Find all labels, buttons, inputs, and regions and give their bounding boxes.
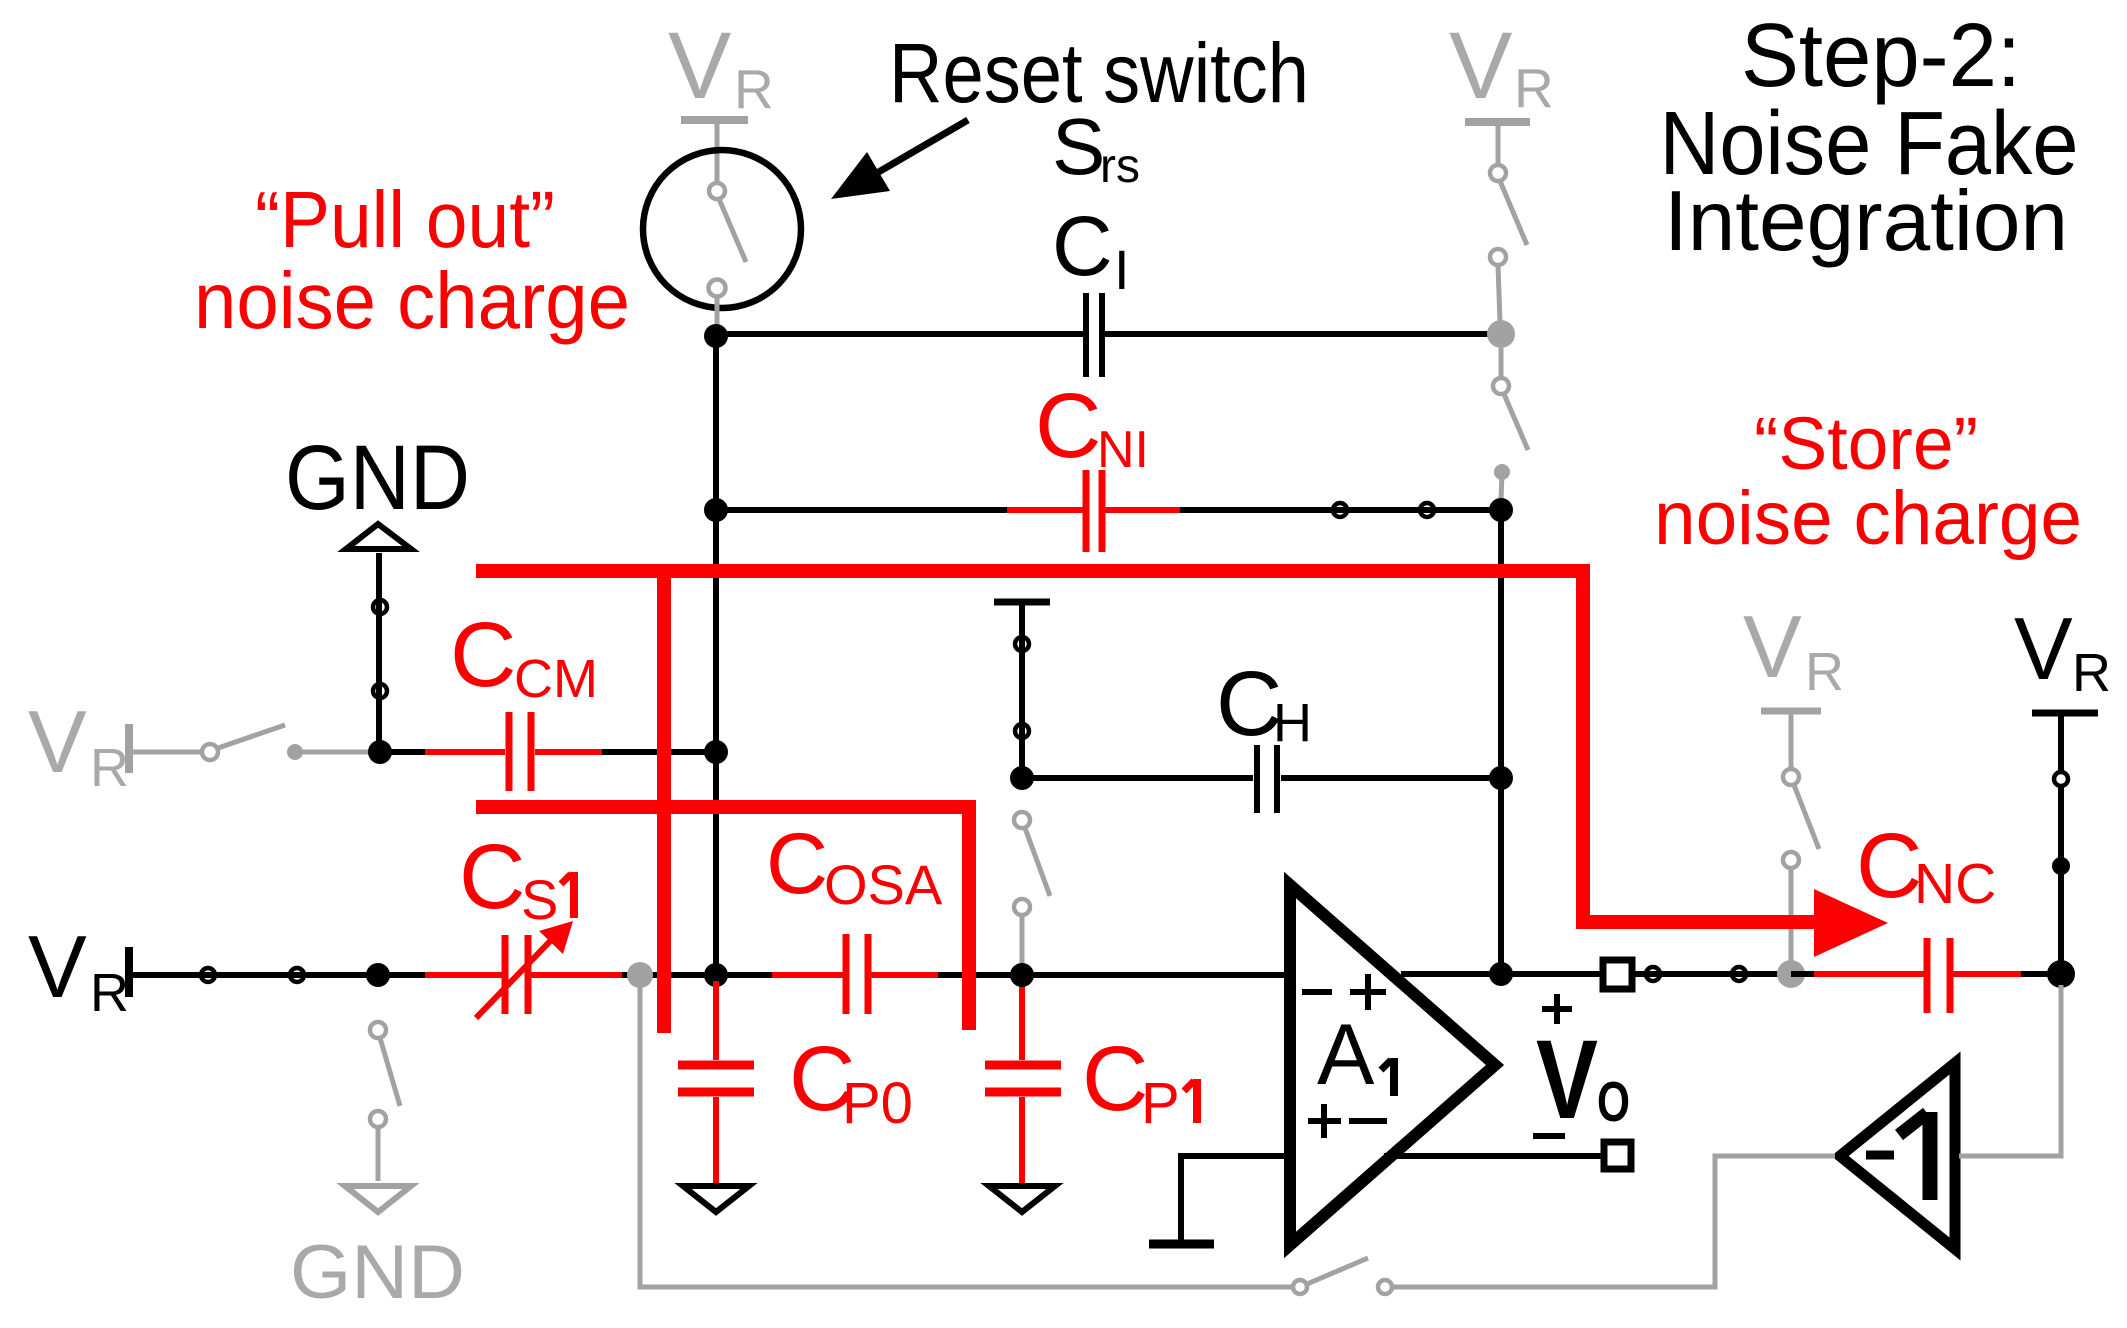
node gray dot store node (1777, 960, 1805, 988)
svg-text:I: I (1114, 238, 1130, 301)
svg-text:S: S (521, 868, 558, 931)
svg-text:R: R (90, 963, 129, 1023)
wire gray feedback path (640, 975, 1835, 1294)
svg-text:V: V (1449, 13, 1512, 119)
svg-text:R: R (734, 58, 774, 120)
annotation arrow to reset switch (831, 120, 968, 199)
svg-text:V: V (28, 692, 87, 791)
ground GND (gray) bottom left (290, 1186, 465, 1315)
node junction dot right node (2047, 960, 2075, 988)
svg-text:CM: CM (514, 649, 598, 709)
node VR (gray) left (28, 692, 202, 798)
capacitor CI (1086, 293, 1102, 377)
svg-text:“Pull out”: “Pull out” (255, 175, 555, 264)
wire thick red path 2 with vertical stub (476, 571, 969, 1033)
switch contacts (closed) on CNI wire (1333, 503, 1434, 517)
node junction dot CCM left (368, 740, 392, 764)
node junction dot CH right (1489, 766, 1513, 790)
label CI (1052, 199, 1130, 301)
svg-text:V: V (1743, 597, 1802, 696)
wire main row: red through CS1 (378, 972, 716, 978)
label COSA (766, 816, 943, 916)
switch (gray, open) from CI node down to CNI node (1493, 348, 1528, 500)
svg-text:Step-2:: Step-2: (1741, 6, 2021, 106)
wire vertical black right column (1498, 510, 1504, 974)
capacitor CP0 to ground (678, 981, 754, 1186)
ground chevron under CP1 (989, 1186, 1055, 1212)
node junction dot main row at reset column (704, 963, 728, 987)
wire main row: red through COSA (716, 972, 1285, 978)
svg-text:Integration: Integration (1664, 174, 2068, 269)
svg-text:GND: GND (285, 427, 470, 529)
node junction dot below reset switch (704, 324, 728, 348)
wire output minus of A1 (1384, 1153, 1603, 1159)
svg-text:noise charge: noise charge (194, 256, 630, 345)
capacitor CH (1257, 745, 1277, 813)
node junction dot summing node at CH column (1010, 963, 1034, 987)
ground chevron under CP0 (683, 1186, 749, 1212)
wire CH row (1022, 775, 1501, 781)
switch (gray, open) from VR to CI node (1490, 165, 1527, 322)
wire thick red "pull out" path 1 (476, 571, 1888, 957)
terminal square plus output (1603, 960, 1632, 989)
svg-text:C: C (1856, 815, 1922, 917)
label Srs (1052, 102, 1140, 193)
terminal square minus output (1604, 1142, 1631, 1169)
label plus sign at output (1542, 994, 1572, 1024)
label CNI (1035, 375, 1149, 479)
node gray dot feedback tap on main row (627, 962, 653, 988)
svg-text:GND: GND (290, 1230, 465, 1315)
node gray dot CI-right junction (1487, 320, 1515, 348)
switch (gray, open) from main node down to GND (370, 1022, 400, 1181)
capacitor CNI (1086, 470, 1102, 552)
svg-text:C: C (1035, 375, 1101, 477)
wire gray from -1 input up to right node (1959, 985, 2061, 1156)
node VR (black) right (2014, 599, 2111, 771)
label "Pull out" noise charge (194, 175, 630, 345)
label CP0 (789, 1028, 913, 1136)
node junction dot main row left (366, 963, 390, 987)
svg-text:C: C (450, 604, 516, 706)
node VR (gray) above reset switch (668, 13, 774, 184)
wire vertical black from reset node down to CP0 (713, 336, 719, 975)
svg-text:C: C (766, 816, 828, 912)
node GND (black) top left (285, 427, 470, 752)
node junction dot CH left (1010, 766, 1034, 790)
label VO (1536, 1017, 1630, 1142)
label Step-2: Noise Fake Integration (1660, 6, 2079, 269)
switch (gray, open) VR to store node (1783, 769, 1819, 962)
svg-text:R: R (2072, 643, 2111, 703)
svg-text:“Store”: “Store” (1754, 402, 1978, 485)
wire plus input of A1 to ground (1149, 1156, 1285, 1244)
wire output plus of A1 (1401, 971, 1600, 977)
label -1 (1866, 1151, 1894, 1160)
svg-text:P0: P0 (842, 1071, 913, 1136)
node junction dot CNI row left (704, 498, 728, 522)
label A1 (1317, 1007, 1394, 1103)
node junction dot output at right column (1489, 962, 1513, 986)
wire output row to store node (1632, 967, 1791, 981)
svg-text:V: V (668, 13, 731, 119)
switch (gray, open) on left VR to CCM node (202, 725, 372, 760)
svg-text:noise charge: noise charge (1654, 476, 2082, 561)
label CS1 (459, 826, 574, 931)
node T-bar terminal above CH column (994, 602, 1050, 778)
wire CI row right segment (1105, 331, 1497, 337)
wire to CNC (1791, 971, 2061, 977)
op-amp A1 (1290, 885, 1495, 1245)
svg-text:A: A (1317, 1007, 1375, 1103)
inverter -1 (1840, 1063, 1955, 1249)
label "Store" noise charge (1654, 402, 2082, 561)
svg-text:C: C (459, 826, 525, 928)
switch (gray, open) from CH node to summing node (1014, 812, 1050, 969)
node junction dot CNI row right (1489, 498, 1513, 522)
svg-text:H: H (1273, 693, 1312, 753)
svg-text:OSA: OSA (824, 853, 943, 916)
capacitor CCM (509, 712, 531, 791)
label CP1 (1082, 1028, 1197, 1136)
svg-text:NI: NI (1097, 421, 1149, 479)
switch (closed) on right VR column (2052, 772, 2070, 974)
capacitor CS1 (variable) (476, 921, 573, 1018)
label CH (1216, 653, 1312, 755)
label CNC (1856, 815, 1996, 917)
capacitor CNC (1927, 938, 1950, 1013)
capacitor CP1 to ground (985, 981, 1061, 1186)
wire CNI row segments (716, 507, 1497, 513)
svg-text:R: R (1805, 642, 1844, 702)
svg-text:V: V (2014, 599, 2073, 698)
label CCM (450, 604, 598, 709)
svg-text:rs: rs (1100, 140, 1140, 193)
svg-text:R: R (90, 738, 129, 798)
svg-text:O: O (1597, 1070, 1630, 1134)
wire main row left with closed switch (129, 968, 378, 982)
wire CCM row segments (380, 749, 716, 755)
node VR (black) main input left (28, 917, 129, 1023)
svg-text:C: C (1082, 1028, 1148, 1130)
reset switch Srs (circle with open switch) (643, 150, 801, 334)
capacitor COSA (846, 934, 868, 1014)
svg-text:NC: NC (1914, 852, 1996, 916)
svg-text:V: V (1536, 1017, 1598, 1142)
svg-text:R: R (1514, 57, 1554, 119)
node junction dot CCM right on reset column (704, 740, 728, 764)
svg-text:P: P (1141, 1071, 1180, 1136)
svg-text:C: C (1052, 199, 1113, 293)
node VR (gray) above store node (1743, 597, 1844, 769)
label minus sign at output (1533, 1133, 1565, 1139)
node VR (gray) top right (1449, 13, 1554, 165)
op-amp A1 input polarity marks (1302, 974, 1387, 1138)
svg-text:V: V (28, 917, 87, 1016)
wire CI row left segment (716, 331, 1083, 337)
svg-text:S: S (1052, 102, 1105, 191)
